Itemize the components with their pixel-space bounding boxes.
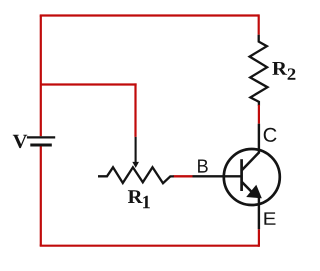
wire right vertical down to R2 top xyxy=(258,14,260,34)
battery V top plate (long) xyxy=(27,136,55,138)
label R1 xyxy=(128,190,150,208)
wire top horizontal rail xyxy=(40,14,259,16)
wire left vertical (top of battery up to top rail) xyxy=(40,16,42,137)
wire red down to R1 wiper arrow xyxy=(134,83,136,136)
wire base black into transistor xyxy=(193,175,242,177)
wiper arrowhead xyxy=(133,162,138,167)
wire middle horizontal xyxy=(41,83,137,85)
wire base red stub xyxy=(173,175,192,177)
wire emitter black xyxy=(258,197,260,230)
wiper arrow shaft black xyxy=(135,137,137,163)
label B xyxy=(198,160,208,173)
transistor emitter diagonal with arrow xyxy=(241,181,253,194)
resistor R2 xyxy=(250,35,268,106)
label V xyxy=(13,135,27,148)
transistor collector diagonal xyxy=(241,152,259,171)
label E xyxy=(264,212,275,224)
wire collector black xyxy=(258,124,260,154)
wire left vertical below battery xyxy=(40,146,42,245)
transistor Q1 circle xyxy=(224,149,280,205)
wire red between R2 and collector xyxy=(258,105,260,124)
battery V bottom plate (short) xyxy=(30,144,52,147)
label C xyxy=(264,128,277,142)
wire emitter red stub to bottom rail xyxy=(258,229,260,247)
transistor base bar xyxy=(240,159,243,191)
transistor emitter arrowhead xyxy=(247,186,261,198)
wire bottom horizontal rail xyxy=(40,245,259,247)
label R2 xyxy=(272,62,295,80)
resistor R1 xyxy=(98,167,174,183)
